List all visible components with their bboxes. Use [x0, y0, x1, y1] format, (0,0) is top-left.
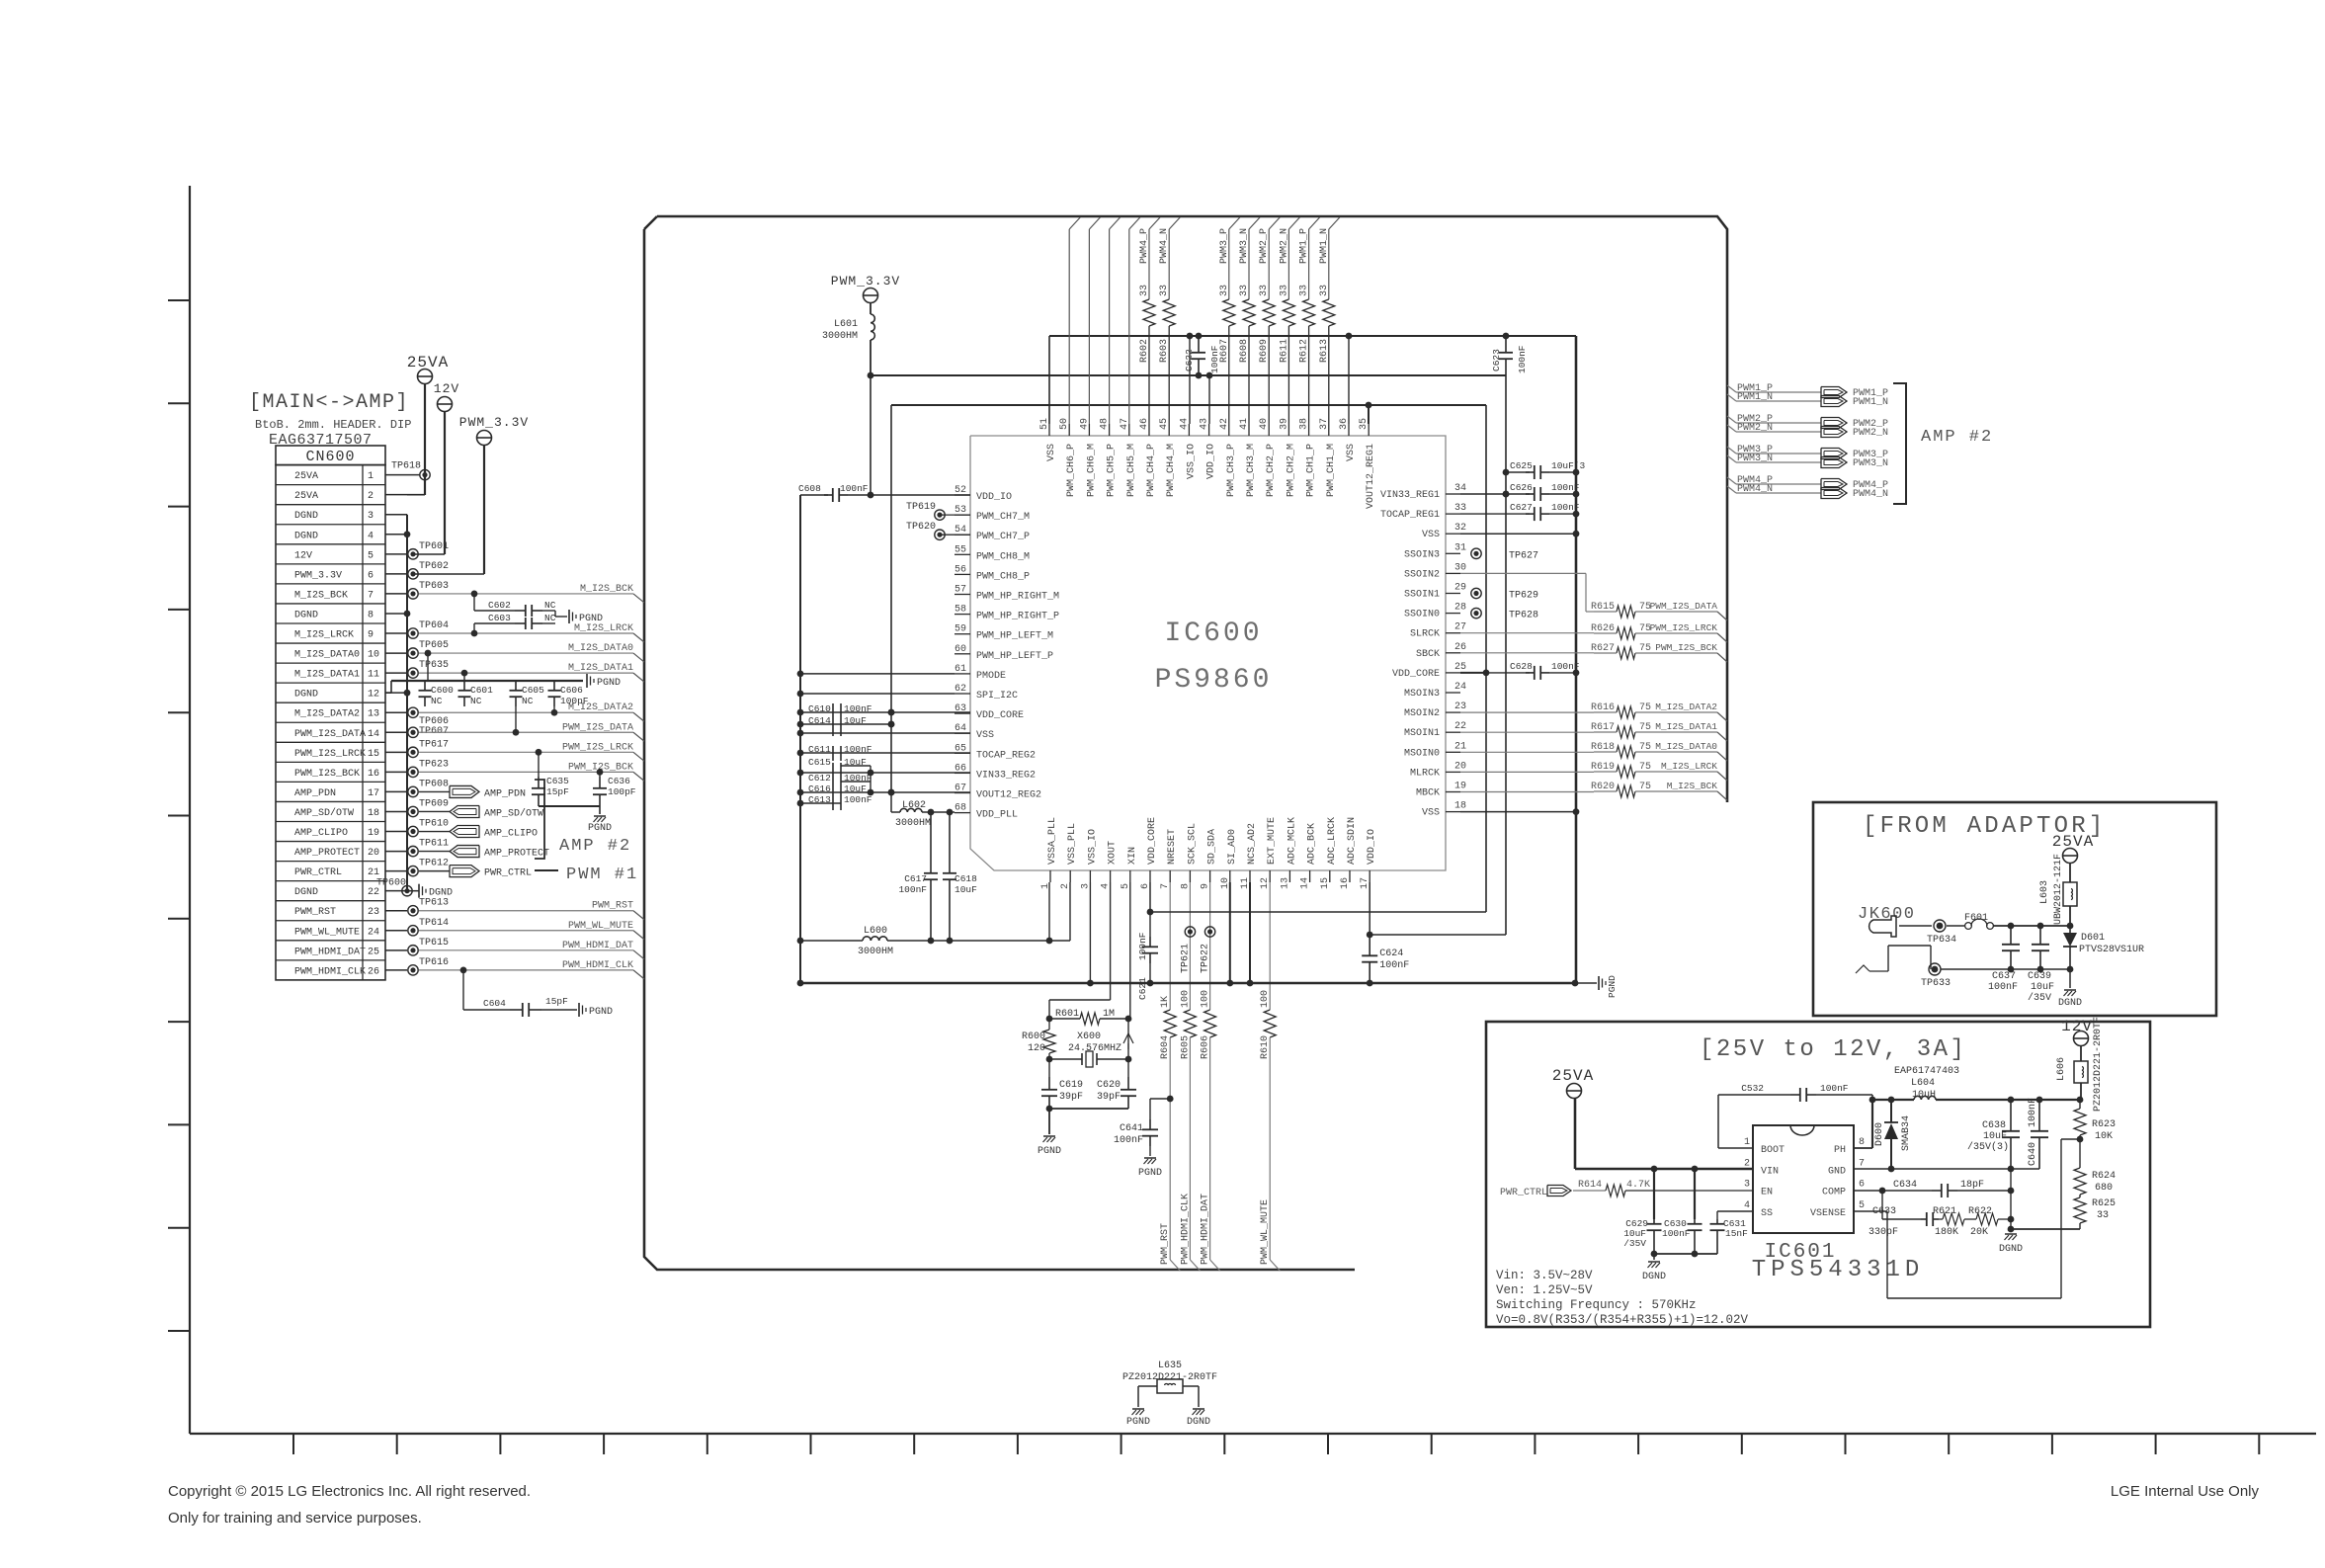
svg-text:C606: C606 — [560, 685, 583, 696]
svg-text:NC: NC — [544, 600, 556, 611]
capacitor C532 100nF — [1790, 1094, 1800, 1096]
svg-text:R611: R611 — [1279, 339, 1289, 363]
wire pin36 VSS from rail340 — [1346, 333, 1353, 340]
svg-text:R603: R603 — [1159, 339, 1170, 363]
svg-text:Vo=0.8V(R353/(R354+R355)+1)=12: Vo=0.8V(R353/(R354+R355)+1)=12.02V — [1496, 1313, 1749, 1327]
svg-text:32: 32 — [1454, 523, 1466, 534]
resistor R607 33 — [1228, 229, 1230, 299]
svg-text:C601: C601 — [470, 685, 493, 696]
wire DGND bus left — [406, 515, 408, 891]
svg-text:PGND: PGND — [597, 678, 621, 689]
svg-text:C638: C638 — [1982, 1120, 2006, 1131]
svg-text:AMP_PROTECT: AMP_PROTECT — [294, 848, 360, 859]
IC600 bottom pin names and numbers — [1040, 817, 1377, 889]
svg-text:7: 7 — [1859, 1158, 1865, 1169]
svg-text:TP601: TP601 — [419, 541, 449, 552]
junction C606 bottom to row13 — [551, 709, 558, 716]
testpoint TP634 — [1934, 920, 1946, 932]
svg-text:TP612: TP612 — [419, 859, 449, 869]
net PWM1_N to AMP#2 — [1727, 394, 1736, 401]
testpoint TP605 — [408, 648, 418, 658]
svg-text:X600: X600 — [1077, 1032, 1101, 1042]
svg-text:M_I2S_BCK: M_I2S_BCK — [294, 590, 348, 601]
resistor R608 33 — [1248, 229, 1250, 299]
wire PWM_3.3V rail y380 — [871, 374, 1506, 376]
svg-text:TP634: TP634 — [1927, 935, 1956, 946]
svg-text:33: 33 — [1159, 285, 1170, 296]
svg-text:PWM2_N: PWM2_N — [1853, 428, 1888, 439]
svg-text:L603: L603 — [2039, 880, 2050, 904]
svg-text:PWM_RST: PWM_RST — [592, 901, 633, 912]
svg-text:PWM_RST: PWM_RST — [1160, 1223, 1171, 1265]
wire PGND bus — [800, 982, 1575, 985]
svg-text:VDD_IO: VDD_IO — [1367, 829, 1377, 865]
ground PGND L635 — [1126, 1409, 1150, 1428]
net PWM2_P to AMP#2 — [1727, 416, 1736, 423]
svg-text:PWM_I2S_BCK: PWM_I2S_BCK — [1655, 642, 1717, 653]
net PWM_RST from CN600 row 23 — [419, 910, 633, 912]
testpoint TP619 pin53 — [935, 510, 945, 520]
net PWM_HDMI_CLK from CN600 row 26 — [419, 969, 633, 971]
svg-text:75: 75 — [1639, 742, 1651, 753]
svg-text:M_I2S_DATA1: M_I2S_DATA1 — [1655, 721, 1717, 732]
wire VSS bus x1595 — [1575, 336, 1578, 983]
svg-text:PWM_CH7_P: PWM_CH7_P — [976, 532, 1030, 542]
svg-text:AMP_SD/OTW: AMP_SD/OTW — [294, 807, 354, 819]
wire pin3 VSS_IO to PGND bus — [1089, 882, 1091, 983]
svg-text:33: 33 — [1454, 503, 1466, 514]
svg-text:VSS_IO: VSS_IO — [1186, 444, 1197, 479]
capacitor C619 39pF — [1048, 1059, 1050, 1077]
svg-text:DGND: DGND — [294, 610, 318, 620]
svg-text:PWM_I2S_DATA: PWM_I2S_DATA — [1650, 601, 1718, 612]
svg-text:10K: 10K — [2095, 1131, 2113, 1142]
svg-text:100nF: 100nF — [1820, 1083, 1849, 1094]
resistor R619 75 net M_I2S_LRCK — [1460, 771, 1594, 773]
svg-text:TP622: TP622 — [1201, 944, 1211, 973]
wire EN to IC601 — [1625, 1190, 1753, 1192]
svg-text:PWM_HP_LEFT_P: PWM_HP_LEFT_P — [976, 651, 1053, 662]
power symbol 25VA (regulator) — [1552, 1067, 1594, 1099]
svg-text:R624: R624 — [2092, 1171, 2116, 1182]
signal tag PWM3_P — [1821, 449, 1847, 459]
net PWM_HDMI_DAT from CN600 row 25 — [419, 949, 633, 951]
svg-text:PWM_HDMI_CLK: PWM_HDMI_CLK — [562, 960, 633, 971]
svg-text:1: 1 — [1744, 1137, 1750, 1148]
net M_I2S_LRCK from CN600 row 9 — [419, 632, 633, 634]
wire PWM_CH pin 48 to top edge — [1109, 229, 1111, 424]
wire XOUT pin4 to crystal — [1110, 882, 1112, 1000]
svg-text:4: 4 — [368, 531, 374, 541]
svg-text:23: 23 — [1454, 701, 1466, 712]
svg-text:ADC_LRCK: ADC_LRCK — [1327, 817, 1338, 865]
svg-text:PGND: PGND — [588, 823, 612, 834]
net PWM3_P to AMP#2 — [1727, 447, 1736, 454]
svg-text:AMP #2: AMP #2 — [559, 837, 631, 856]
svg-text:IC600: IC600 — [1164, 619, 1262, 649]
box 25V to 12V 3A — [1486, 1022, 2150, 1327]
wire 3.3V return to C624 — [1505, 375, 1507, 935]
wire GND pin7 rail — [1854, 1168, 2039, 1170]
signal tag AMP_SD/OTW — [419, 810, 450, 812]
svg-text:31: 31 — [1454, 542, 1466, 553]
svg-text:100nF: 100nF — [1114, 1135, 1143, 1146]
net M_I2S_BCK from CN600 row 7 — [419, 593, 633, 595]
svg-text:VIN: VIN — [1761, 1166, 1779, 1177]
svg-text:TP614: TP614 — [419, 918, 449, 929]
svg-text:3000HM: 3000HM — [822, 331, 858, 342]
svg-text:10uF: 10uF — [844, 715, 867, 726]
svg-text:SSOIN2: SSOIN2 — [1404, 569, 1440, 580]
capacitor C636 100pF — [599, 772, 601, 777]
capacitor C605 NC — [515, 681, 517, 691]
capacitor C602 NC — [473, 594, 475, 611]
svg-text:21: 21 — [1454, 741, 1466, 752]
svg-text:680: 680 — [2095, 1183, 2113, 1194]
svg-text:6: 6 — [368, 570, 374, 581]
svg-text:Copyright © 2015 LG Electronic: Copyright © 2015 LG Electronics Inc. All… — [168, 1483, 531, 1500]
svg-text:R605: R605 — [1180, 1035, 1191, 1059]
ground SPGND for C604 — [579, 1003, 613, 1018]
svg-text:EXT_MUTE: EXT_MUTE — [1267, 817, 1278, 865]
resistor R616 75 net M_I2S_DATA2 — [1460, 711, 1594, 713]
power symbol 12V out — [2061, 1018, 2093, 1046]
svg-text:12V: 12V — [294, 550, 312, 561]
svg-text:VIN33_REG2: VIN33_REG2 — [976, 770, 1036, 781]
svg-text:TP602: TP602 — [419, 561, 449, 572]
junction C617/C618 top — [928, 809, 935, 816]
svg-text:SSOIN3: SSOIN3 — [1404, 549, 1440, 560]
svg-text:75: 75 — [1639, 722, 1651, 733]
svg-text:SSOIN0: SSOIN0 — [1404, 610, 1440, 620]
resistor R613 33 — [1328, 229, 1330, 299]
capacitor C639 10uF/35V — [2039, 926, 2041, 945]
svg-text:R613: R613 — [1319, 339, 1330, 363]
capacitor C622 100nF — [1196, 333, 1203, 340]
testpoint TP621 pin8 — [1185, 927, 1195, 937]
diode D600 SMAB34 — [1890, 1100, 1892, 1122]
IC600 left pin names and numbers — [955, 485, 1059, 821]
svg-text:MBCK: MBCK — [1416, 788, 1440, 799]
svg-text:NC: NC — [431, 696, 443, 706]
svg-text:C618: C618 — [955, 873, 977, 884]
svg-text:R604: R604 — [1160, 1035, 1171, 1059]
svg-text:12V: 12V — [2061, 1018, 2093, 1035]
svg-text:MSOIN1: MSOIN1 — [1404, 728, 1440, 739]
svg-text:34: 34 — [1454, 483, 1466, 494]
svg-text:PWM1_N: PWM1_N — [1319, 228, 1330, 264]
wire stubs from CN600 rows — [385, 475, 407, 970]
svg-text:R609: R609 — [1259, 339, 1270, 363]
svg-text:LGE Internal Use Only: LGE Internal Use Only — [2111, 1483, 2260, 1500]
svg-text:C617: C617 — [904, 873, 927, 884]
svg-text:C608: C608 — [798, 483, 821, 494]
page frame left border — [189, 186, 191, 1434]
svg-text:PGND: PGND — [579, 614, 603, 624]
svg-text:COMP: COMP — [1822, 1188, 1846, 1198]
svg-text:VSSA_PLL: VSSA_PLL — [1047, 817, 1058, 865]
svg-text:L606: L606 — [2056, 1057, 2067, 1081]
svg-text:PWM_HP_RIGHT_M: PWM_HP_RIGHT_M — [976, 592, 1059, 603]
svg-text:TP600: TP600 — [376, 878, 406, 889]
svg-text:12V: 12V — [434, 381, 459, 396]
svg-text:PWM_I2S_LRCK: PWM_I2S_LRCK — [562, 742, 633, 753]
wire VDD_CORE drop x902 — [890, 405, 892, 792]
svg-text:75: 75 — [1639, 762, 1651, 773]
resistor R624 680 — [2079, 1139, 2081, 1168]
svg-text:/35V(3): /35V(3) — [1967, 1141, 2009, 1153]
svg-text:PWM_CH1_M: PWM_CH1_M — [1326, 444, 1337, 497]
testpoint TP606 — [408, 707, 418, 717]
svg-text:M_I2S_BCK: M_I2S_BCK — [1667, 781, 1718, 791]
svg-text:24.576MHZ: 24.576MHZ — [1068, 1043, 1121, 1054]
svg-text:PTVS28VS1UR: PTVS28VS1UR — [2079, 945, 2144, 955]
svg-text:TP629: TP629 — [1509, 591, 1538, 602]
capacitor C617 100nF — [930, 812, 932, 873]
svg-text:M_I2S_DATA2: M_I2S_DATA2 — [1655, 701, 1717, 712]
signal tag PWM2_N — [1821, 427, 1847, 438]
svg-text:100: 100 — [1201, 990, 1211, 1008]
testpoint TP616 — [408, 965, 418, 975]
svg-text:R627: R627 — [1591, 643, 1615, 654]
svg-text:VDD_PLL: VDD_PLL — [976, 810, 1018, 821]
capacitor C641 100nF — [1167, 1096, 1174, 1103]
svg-text:BOOT: BOOT — [1761, 1145, 1785, 1156]
svg-text:PWM3_N: PWM3_N — [1853, 458, 1888, 469]
svg-text:M_I2S_DATA2: M_I2S_DATA2 — [294, 709, 360, 720]
svg-text:PWM_HP_RIGHT_P: PWM_HP_RIGHT_P — [976, 612, 1059, 622]
wire PWM_3.3V to pin 6 — [483, 446, 485, 574]
svg-text:TP604: TP604 — [419, 620, 449, 631]
svg-text:100nF: 100nF — [844, 773, 872, 784]
svg-text:C602: C602 — [488, 600, 511, 611]
svg-text:330pF: 330pF — [1868, 1227, 1898, 1238]
svg-text:PWM_3.3V: PWM_3.3V — [831, 274, 900, 289]
svg-text:10uF(3: 10uF(3 — [1551, 460, 1586, 471]
svg-text:VSS: VSS — [1346, 444, 1357, 461]
svg-text:33: 33 — [1319, 285, 1330, 296]
svg-text:33: 33 — [1239, 285, 1250, 296]
svg-text:R619: R619 — [1591, 762, 1615, 773]
wire 25VA to CN600 pins 1-2 — [424, 384, 426, 495]
svg-text:33: 33 — [1139, 285, 1150, 296]
signal tag PWM1_N — [1821, 396, 1847, 407]
resistor R626 75 net PWM_I2S_LRCK — [1460, 632, 1594, 634]
svg-text:17: 17 — [368, 788, 379, 799]
svg-text:100nF: 100nF — [840, 483, 869, 494]
testpoint TP635 — [408, 668, 418, 678]
wire pins1/2 PLL ground drops — [1048, 882, 1050, 941]
signal tag PWM3_N — [1821, 457, 1847, 468]
svg-text:DGND: DGND — [294, 887, 318, 898]
svg-text:D600: D600 — [1874, 1122, 1885, 1146]
svg-text:TP617: TP617 — [419, 739, 449, 750]
svg-text:R614: R614 — [1578, 1180, 1602, 1191]
wire R625 to DGND rail — [2011, 1228, 2080, 1230]
junction row16 tap — [597, 769, 604, 776]
net PWM1_P to AMP#2 — [1727, 385, 1736, 392]
svg-text:C641: C641 — [1120, 1123, 1143, 1134]
svg-text:R625: R625 — [2092, 1198, 2116, 1209]
svg-text:PWM_HDMI_CLK: PWM_HDMI_CLK — [294, 966, 366, 977]
svg-text:PWM_CH2_P: PWM_CH2_P — [1266, 444, 1277, 497]
svg-text:2: 2 — [1744, 1158, 1750, 1169]
capacitor C637 100nF — [2010, 926, 2012, 945]
svg-text:NRESET: NRESET — [1167, 829, 1178, 865]
svg-text:8: 8 — [1180, 883, 1191, 889]
svg-text:23: 23 — [368, 907, 379, 918]
svg-text:NCS_AD2: NCS_AD2 — [1247, 823, 1258, 865]
svg-text:/35V: /35V — [1623, 1238, 1646, 1249]
svg-text:15: 15 — [368, 749, 379, 760]
svg-text:PWM_CH1_P: PWM_CH1_P — [1306, 444, 1317, 497]
testpoint TP612 — [408, 866, 418, 875]
svg-text:10uF: 10uF — [844, 757, 867, 768]
svg-text:PWM_HP_LEFT_M: PWM_HP_LEFT_M — [976, 631, 1053, 642]
svg-text:9: 9 — [368, 630, 374, 641]
ground DGND adaptor — [2069, 969, 2071, 988]
svg-text:25: 25 — [368, 947, 379, 957]
svg-text:VSS: VSS — [1422, 808, 1440, 819]
regulator IC601 body — [1753, 1125, 1854, 1233]
net PWM3_N to AMP#2 — [1727, 455, 1736, 462]
svg-text:DGND: DGND — [294, 511, 318, 522]
wire COMP node — [1854, 1190, 1932, 1192]
svg-text:15pF: 15pF — [545, 996, 568, 1007]
svg-text:75: 75 — [1639, 643, 1651, 654]
ruler tick marks bottom — [293, 1434, 2259, 1454]
svg-text:PMODE: PMODE — [976, 671, 1006, 682]
net PWM4_P to AMP#2 — [1727, 477, 1736, 484]
testpoint TP629 pin29 — [1471, 588, 1481, 598]
wire cluster top rail — [391, 680, 583, 682]
svg-text:100pF: 100pF — [560, 696, 589, 706]
svg-text:SS: SS — [1761, 1208, 1773, 1219]
svg-text:L635: L635 — [1158, 1361, 1182, 1371]
testpoint TP610 — [408, 826, 418, 836]
svg-text:TP603: TP603 — [419, 581, 449, 592]
svg-text:M_I2S_DATA0: M_I2S_DATA0 — [1655, 741, 1717, 752]
svg-text:PWM_CH5_M: PWM_CH5_M — [1126, 444, 1137, 497]
capacitor C625 10uF — [1506, 471, 1530, 473]
svg-text:19: 19 — [1454, 782, 1466, 792]
svg-text:180K: 180K — [1935, 1227, 1958, 1238]
svg-text:C627: C627 — [1510, 502, 1533, 513]
svg-text:TP619: TP619 — [906, 502, 936, 513]
svg-text:20: 20 — [1454, 761, 1466, 772]
svg-text:PWM3_P: PWM3_P — [1219, 228, 1230, 264]
svg-text:TP621: TP621 — [1180, 944, 1191, 973]
wire row10 tap — [425, 650, 432, 657]
inductor L600 3000HM — [800, 940, 863, 942]
svg-text:3000HM: 3000HM — [858, 947, 893, 957]
resistor R618 75 net M_I2S_DATA0 — [1460, 751, 1594, 753]
wire C635/C636 bottoms — [539, 805, 600, 807]
svg-text:C640: C640 — [2028, 1142, 2038, 1166]
svg-text:PWM2_P: PWM2_P — [1259, 228, 1270, 264]
svg-text:PWM_I2S_LRCK: PWM_I2S_LRCK — [1650, 622, 1718, 633]
svg-text:CN600: CN600 — [305, 449, 355, 465]
ground DGND divider — [2010, 1229, 2012, 1232]
svg-text:12: 12 — [368, 690, 379, 701]
net PWM_I2S_BCK from CN600 row 16 — [419, 771, 633, 773]
svg-text:C624: C624 — [1379, 949, 1403, 959]
ground PGND under C636 — [599, 806, 601, 814]
IC600 right pin names and numbers — [1380, 483, 1466, 819]
IC600 bottom pin leads — [1050, 870, 1370, 882]
svg-text:TP627: TP627 — [1509, 550, 1538, 561]
svg-text:TP610: TP610 — [419, 819, 449, 830]
capacitor bank C610/C614/C611/C615/C612/C616/C613 — [797, 703, 970, 810]
svg-text:JK600: JK600 — [1858, 905, 1916, 924]
wire VIN rail — [1575, 1168, 1753, 1171]
svg-text:1K: 1K — [1160, 996, 1171, 1008]
junction row7 — [471, 591, 478, 598]
svg-text:NC: NC — [470, 696, 482, 706]
net PWM4_N to AMP#2 — [1727, 486, 1736, 493]
svg-text:18: 18 — [1454, 801, 1466, 812]
svg-text:R600: R600 — [1022, 1032, 1045, 1042]
svg-text:L600: L600 — [864, 926, 887, 937]
inductor L603 UBW2012-121F — [2063, 882, 2077, 906]
svg-text:Only for training and service: Only for training and service purposes. — [168, 1510, 422, 1527]
svg-text:26: 26 — [368, 966, 379, 977]
testpoint TP623 — [408, 767, 418, 777]
svg-text:C636: C636 — [608, 776, 630, 786]
svg-text:1: 1 — [368, 471, 374, 482]
capacitor C624 100nF — [1369, 935, 1370, 955]
svg-text:VOUT12_REG1: VOUT12_REG1 — [1366, 444, 1376, 509]
wire pin35 VOUT12_REG1 from rail410 — [1366, 402, 1372, 409]
svg-text:C604: C604 — [483, 998, 506, 1009]
box FROM ADAPTOR — [1813, 802, 2216, 1016]
svg-text:M_I2S_LRCK: M_I2S_LRCK — [1661, 761, 1717, 772]
svg-text:NC: NC — [544, 613, 556, 623]
net M_I2S_DATA1 from CN600 row 11 — [419, 672, 633, 674]
signal tag PWM2_P — [1821, 418, 1847, 429]
net M_I2S_DATA2 from CN600 row 13 — [419, 711, 633, 713]
capacitor C628 100nF pin25 — [1460, 672, 1486, 674]
svg-text:SMAB34: SMAB34 — [1901, 1115, 1912, 1151]
ground PGND right of VSS bus — [1572, 980, 1579, 987]
svg-text:10uF: 10uF — [1983, 1131, 2007, 1142]
capacitor C601 NC — [463, 681, 465, 691]
svg-text:TPS54331D: TPS54331D — [1752, 1257, 1925, 1283]
svg-text:AMP #2: AMP #2 — [1921, 428, 1993, 447]
IC600 left pin leads — [955, 495, 970, 813]
wire pin62 SPI_I2C to bus — [797, 691, 804, 698]
resistor R605 100 — [1189, 882, 1191, 1010]
svg-text:PWM_CH8_M: PWM_CH8_M — [976, 551, 1030, 562]
resistor R617 75 net M_I2S_DATA1 — [1460, 731, 1594, 733]
svg-text:VDD_CORE: VDD_CORE — [1392, 669, 1440, 680]
svg-text:C615: C615 — [808, 757, 831, 768]
wire PWM3_N exit slant — [1249, 217, 1260, 229]
svg-text:C626: C626 — [1510, 482, 1533, 493]
signal tag AMP_CLIPO — [419, 831, 450, 833]
wire crystal caps join — [1049, 1108, 1128, 1110]
resistor R610 100 — [1269, 882, 1271, 1010]
svg-text:R608: R608 — [1239, 339, 1250, 363]
svg-text:PWM3_N: PWM3_N — [1239, 228, 1250, 264]
junction C605 bottom to row14 — [513, 729, 520, 736]
svg-text:18: 18 — [368, 808, 379, 819]
svg-text:100nF: 100nF — [1551, 502, 1580, 513]
svg-text:C610: C610 — [808, 703, 831, 714]
ruler tick marks left — [168, 300, 190, 1331]
svg-text:C616: C616 — [808, 784, 831, 794]
svg-text:C532: C532 — [1741, 1083, 1764, 1094]
